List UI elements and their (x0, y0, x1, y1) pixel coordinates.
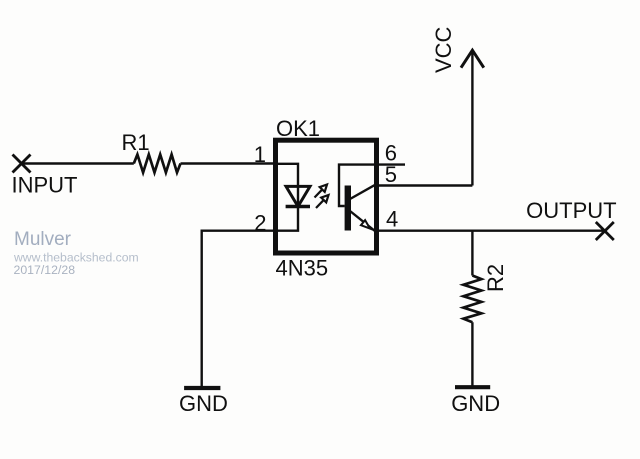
LED diode (inside OK1) (286, 186, 310, 206)
terminal X OUTPUT (596, 222, 614, 240)
wire R2 to ground (471, 322, 473, 387)
wire pin 4 to OUTPUT (379, 229, 605, 231)
watermark Mulver (13, 229, 139, 277)
ground symbol right (455, 385, 490, 389)
svg-text:4N35: 4N35 (276, 255, 329, 280)
svg-text:OK1: OK1 (276, 116, 320, 141)
light emission arrow lower (316, 195, 329, 208)
resistor R1 (134, 155, 181, 173)
svg-text:OUTPUT: OUTPUT (526, 198, 616, 223)
svg-text:Mulver: Mulver (14, 229, 72, 250)
ground symbol left (184, 386, 220, 390)
wire pin 2 to left ground (202, 231, 276, 387)
svg-text:INPUT: INPUT (12, 172, 78, 197)
wire LED cathode to pin 2 (276, 207, 298, 231)
VCC arrow head (461, 50, 484, 67)
wire pin 5 to VCC riser (379, 184, 472, 186)
emitter line with arrow to pin 4 (350, 211, 375, 231)
wire internal pin1 to LED anode (276, 164, 298, 187)
wire junction to R2 (471, 231, 473, 276)
VCC riser wire (471, 51, 473, 186)
svg-text:2017/12/28: 2017/12/28 (14, 263, 76, 277)
terminal X INPUT (13, 155, 31, 173)
pin 6 stub wire (379, 163, 405, 165)
optocoupler OK1 body (276, 140, 377, 253)
resistor R2 (463, 276, 481, 323)
svg-text:GND: GND (179, 391, 228, 416)
svg-text:R2: R2 (483, 264, 508, 292)
wire base to pin 6 (339, 165, 376, 206)
svg-text:5: 5 (385, 162, 397, 187)
svg-text:1: 1 (254, 142, 266, 167)
collector line to pin 5 (350, 186, 376, 200)
wire R1 to OK1 pin 1 (181, 162, 277, 164)
wire INPUT to R1 (22, 162, 134, 164)
svg-text:R1: R1 (122, 130, 150, 155)
svg-text:4: 4 (386, 206, 398, 231)
light emission arrow upper (315, 185, 328, 198)
svg-text:GND: GND (451, 391, 500, 416)
svg-text:VCC: VCC (431, 26, 456, 73)
phototransistor base bar (inside OK1) (345, 186, 351, 231)
